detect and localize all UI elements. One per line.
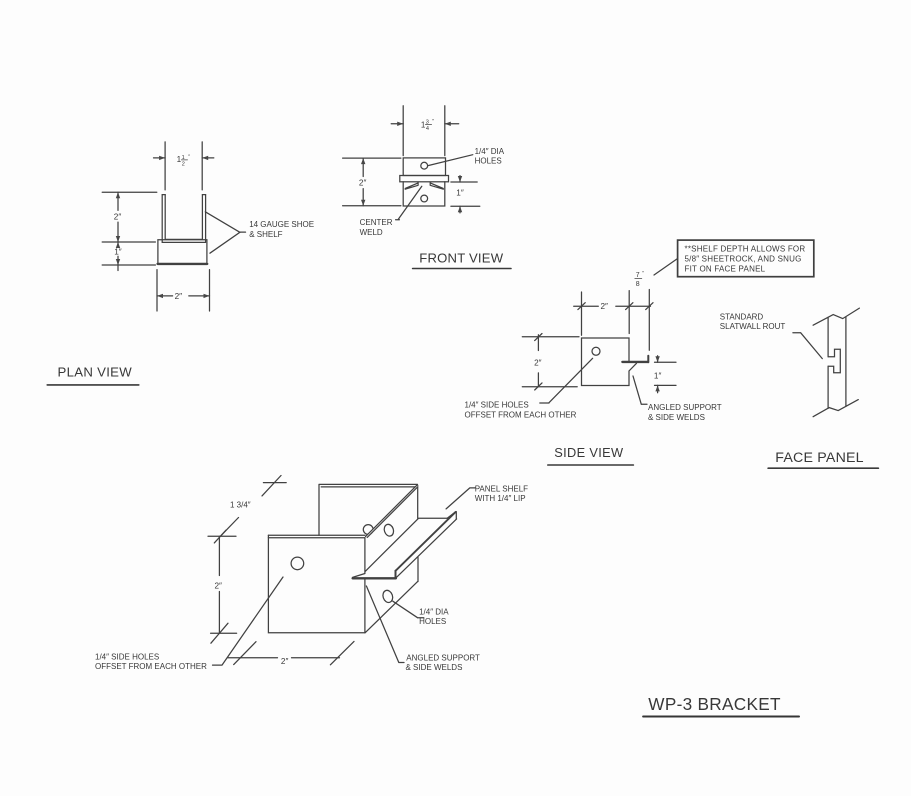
iso shelf lip near-end fold — [395, 571, 397, 578]
front view 1/4 dia hole top — [421, 162, 428, 169]
plan view shoe block — [158, 240, 208, 264]
front dim 2 inch left — [343, 158, 401, 206]
slatwall rout profile — [828, 349, 840, 373]
svg-text:ANGLED SUPPORT: ANGLED SUPPORT — [406, 653, 480, 662]
plan dim 2 inch bottom — [157, 270, 210, 311]
plan dim 1 inch left — [102, 242, 155, 271]
iso shelf lip fold line (thick) — [395, 512, 455, 571]
title SIDE VIEW — [548, 445, 634, 465]
label 1/4" SIDE HOLES OFFSET FROM EACH OTHER (side view) with leader — [465, 358, 593, 419]
iso shelf bottom thick edge — [353, 577, 396, 579]
side dim 2 inch left — [522, 334, 579, 391]
front view upper plate — [403, 158, 445, 176]
title FRONT VIEW — [413, 250, 511, 268]
iso front face dia hole upper — [383, 523, 395, 537]
title PLAN VIEW — [47, 364, 139, 385]
face panel bottom break line — [813, 400, 858, 417]
face panel right edge — [845, 317, 847, 406]
front view center weld wedges — [405, 182, 443, 189]
svg-text:WP-3 BRACKET: WP-3 BRACKET — [648, 694, 781, 714]
svg-text:″: ″ — [432, 119, 434, 125]
front dim 1 inch right — [451, 176, 480, 213]
svg-text:2″: 2″ — [601, 302, 609, 311]
iso shelf slot in near plate — [353, 574, 365, 578]
plan dim 2 inch left — [102, 192, 157, 242]
svg-text:2″: 2″ — [534, 358, 542, 367]
side view side hole — [592, 347, 600, 355]
label 1/4" SIDE HOLES OFFSET (iso) with leader — [95, 577, 283, 671]
iso far side plate — [319, 484, 418, 581]
svg-text:PANEL SHELF: PANEL SHELF — [475, 484, 528, 493]
svg-text:SIDE VIEW: SIDE VIEW — [554, 445, 624, 460]
title FACE PANEL — [768, 450, 878, 468]
svg-text:7: 7 — [636, 272, 640, 279]
svg-text:PLAN VIEW: PLAN VIEW — [58, 364, 133, 379]
iso dim 1-3/4 oblique — [208, 476, 286, 543]
svg-text:″: ″ — [642, 271, 644, 277]
plan view U-channel (14 ga shelf profile) — [162, 195, 205, 243]
svg-text:HOLES: HOLES — [419, 617, 446, 626]
svg-text:1/4″ SIDE HOLES: 1/4″ SIDE HOLES — [95, 652, 159, 661]
iso front face bottom edge — [365, 582, 417, 633]
svg-text:1/4″ SIDE HOLES: 1/4″ SIDE HOLES — [465, 401, 529, 410]
svg-text:8: 8 — [636, 281, 640, 288]
svg-text:FRONT VIEW: FRONT VIEW — [419, 250, 503, 265]
note box SHELF DEPTH with leader — [654, 240, 814, 277]
svg-text:FACE PANEL: FACE PANEL — [775, 450, 863, 466]
svg-text:4: 4 — [426, 126, 429, 132]
label 14 GAUGE SHOE & SHELF with leader — [205, 212, 314, 253]
svg-text:STANDARD: STANDARD — [720, 312, 764, 321]
label STANDARD SLATWALL ROUT with leader — [720, 312, 823, 358]
side dim 1 inch right — [654, 356, 676, 393]
svg-text:WITH 1/4″ LIP: WITH 1/4″ LIP — [475, 494, 526, 503]
side dim 2 inch top — [574, 291, 651, 336]
svg-text:1/4″ DIA: 1/4″ DIA — [419, 607, 449, 616]
iso far plate side hole (partially hidden) — [363, 525, 373, 535]
iso front face top edge (double diagonal) — [366, 485, 418, 538]
face panel top break line — [813, 308, 859, 325]
side view shelf thick line — [622, 361, 648, 363]
svg-text:2″: 2″ — [359, 179, 367, 188]
svg-text:2″: 2″ — [215, 581, 223, 590]
svg-text:SLATWALL ROUT: SLATWALL ROUT — [720, 322, 786, 331]
iso dim 2 horizontal bottom — [228, 641, 354, 665]
label CENTER WELD with leader — [360, 186, 422, 237]
svg-text:HOLES: HOLES — [475, 157, 502, 166]
front dim 1-3/4 inch top — [391, 106, 459, 156]
iso front face dia hole lower — [381, 589, 394, 604]
svg-text:OFFSET FROM EACH OTHER: OFFSET FROM EACH OTHER — [95, 662, 207, 671]
svg-text:CENTER: CENTER — [360, 218, 393, 227]
svg-text:1″: 1″ — [114, 247, 122, 256]
svg-text:2″: 2″ — [114, 212, 122, 221]
svg-text:5/8″ SHEETROCK, AND SNUG: 5/8″ SHEETROCK, AND SNUG — [685, 255, 802, 264]
svg-text:FIT ON FACE PANEL: FIT ON FACE PANEL — [685, 264, 766, 273]
svg-text:**SHELF DEPTH ALLOWS FOR: **SHELF DEPTH ALLOWS FOR — [685, 245, 806, 254]
svg-text:2″: 2″ — [281, 657, 289, 666]
svg-text:1 3/4″: 1 3/4″ — [230, 501, 251, 510]
front view 1/4 dia hole bottom — [421, 195, 428, 202]
iso shelf lip outer lower edge — [396, 519, 456, 578]
svg-text:2″: 2″ — [175, 292, 183, 301]
iso shelf lip top edge — [447, 512, 456, 519]
front view shelf bar — [400, 176, 449, 182]
svg-text:WELD: WELD — [360, 228, 383, 237]
label 1/4" DIA HOLES (iso) with leader — [393, 601, 449, 626]
iso near side plate — [268, 535, 365, 633]
label PANEL SHELF WITH 1/4" LIP with leader — [446, 484, 528, 509]
side view shelf lip hook — [647, 356, 649, 363]
svg-text:1″: 1″ — [456, 188, 464, 197]
svg-text:OFFSET FROM EACH OTHER: OFFSET FROM EACH OTHER — [465, 410, 577, 419]
svg-text:14 GAUGE SHOE: 14 GAUGE SHOE — [249, 220, 314, 229]
svg-text:1″: 1″ — [654, 371, 662, 380]
side view plate outline with notch — [582, 338, 637, 386]
svg-text:& SHELF: & SHELF — [249, 230, 282, 239]
svg-text:″: ″ — [188, 154, 190, 160]
svg-text:1/4″ DIA: 1/4″ DIA — [475, 147, 505, 156]
face panel left edge — [827, 317, 829, 408]
svg-text:& SIDE WELDS: & SIDE WELDS — [406, 663, 463, 672]
svg-text:& SIDE WELDS: & SIDE WELDS — [648, 413, 705, 422]
front view lower plate — [403, 182, 445, 206]
iso shelf through slot: top edge — [365, 518, 447, 571]
title WP-3 BRACKET — [643, 694, 799, 716]
plan dim 1-1/2 inch top — [154, 142, 214, 190]
label ANGLED SUPPORT & SIDE WELDS (side view) with leader — [633, 376, 722, 422]
svg-text:2: 2 — [182, 162, 185, 168]
iso near plate side hole — [291, 557, 304, 570]
svg-text:ANGLED SUPPORT: ANGLED SUPPORT — [648, 403, 722, 412]
side dim 7/8 inch top right — [635, 271, 653, 350]
label 1/4" DIA HOLES with leader — [428, 147, 505, 166]
iso dim 2 vertical left — [211, 536, 237, 643]
label ANGLED SUPPORT & SIDE WELDS (iso) with leader — [366, 586, 480, 672]
